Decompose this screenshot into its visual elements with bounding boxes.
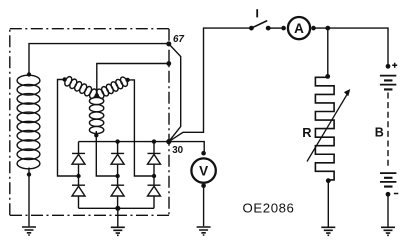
node mid col2 (115, 174, 119, 178)
switch I (249, 21, 271, 31)
svg-text:V: V (199, 163, 208, 178)
node bus col2 (115, 139, 119, 143)
neutral terminal node (166, 61, 171, 66)
node stator right top (125, 78, 129, 82)
node stator left top (62, 77, 66, 81)
battery plus sign (392, 63, 397, 68)
ammeter A (281, 17, 316, 39)
wire terminal 67 to terminal 30 (external link) (169, 44, 181, 142)
ground rheostat (321, 227, 335, 235)
wire right phase to diode D3/D6 midpoint (128, 80, 154, 176)
dc output bus (top of bridge) (79, 141, 169, 143)
wire star center to neutral terminal (97, 64, 169, 96)
node stator star center (95, 93, 99, 97)
svg-text:A: A (294, 21, 304, 36)
diode D3 (148, 142, 161, 176)
svg-text:R: R (302, 125, 311, 140)
diode D1 (72, 142, 85, 176)
wire battery to ground (387, 194, 389, 226)
wire switch to ammeter (268, 27, 283, 29)
ground battery (381, 227, 395, 235)
rheostat arrow (307, 93, 348, 162)
node bridge ground (115, 206, 120, 211)
stator left phase winding (63, 75, 98, 99)
node stator center bottom (94, 133, 98, 137)
battery minus sign (394, 193, 398, 195)
wire field bottom to ground (28, 168, 30, 227)
field winding L1 (17, 75, 40, 169)
node junction R (325, 26, 330, 31)
node field bottom (27, 172, 31, 176)
svg-text:67: 67 (173, 34, 184, 45)
wire center phase to diode D2/D5 midpoint (96, 131, 117, 176)
ground field (22, 227, 36, 235)
diode D2 (111, 142, 124, 176)
voltmeter V (191, 151, 215, 188)
ground bridge (111, 227, 125, 235)
battery bottom cells (380, 173, 396, 186)
battery B (380, 63, 398, 197)
wire rheostat to ground (327, 181, 329, 227)
alternator housing (dash-dot box) (10, 29, 169, 216)
ground voltmeter (197, 227, 211, 235)
diode D6 (148, 176, 161, 208)
wire terminal 30 to switch (B+ line) (169, 28, 252, 142)
svg-text:OE2086: OE2086 (243, 201, 295, 216)
stator center phase winding (89, 97, 103, 133)
svg-text:30: 30 (172, 145, 183, 156)
wire field top to terminal 67 (29, 44, 169, 77)
wire ammeter to battery top (314, 28, 389, 66)
stator right phase winding (95, 76, 128, 100)
bridge bottom bus (79, 207, 155, 209)
wire junction to rheostat (327, 28, 329, 76)
node field top (27, 72, 31, 76)
diode D4 (72, 176, 85, 208)
terminal 30 (166, 139, 171, 144)
svg-text:B: B (375, 126, 384, 140)
wire voltmeter to ground (203, 186, 205, 226)
rheostat R (307, 74, 350, 183)
node mid col1 (76, 174, 80, 178)
wire terminal 30 to voltmeter (169, 142, 204, 154)
diode D5 (111, 176, 124, 208)
battery dashed link (387, 93, 389, 169)
node mid col3 (152, 174, 156, 178)
terminal 67 (166, 41, 171, 46)
node bus col3 (152, 139, 156, 143)
label I (256, 9, 258, 17)
wire bridge to ground (117, 208, 119, 226)
battery top cells (380, 76, 396, 90)
wire left phase to diode D1/D4 midpoint (58, 80, 79, 177)
